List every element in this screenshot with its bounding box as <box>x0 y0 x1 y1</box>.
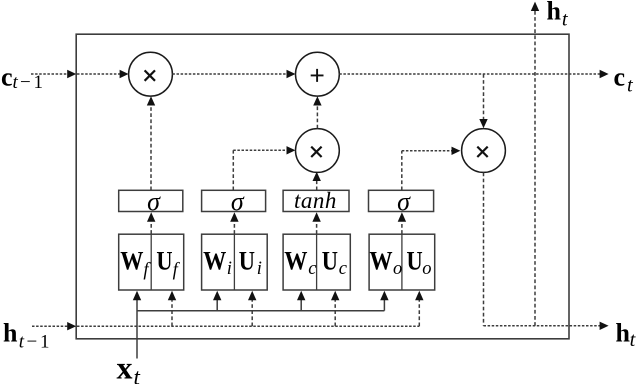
wire M1 to A1 dashed <box>172 73 287 75</box>
svg-text:i: i <box>257 259 262 279</box>
wire sigma-i route to M2 <box>232 150 234 190</box>
arrowhead x into Wi <box>213 291 221 301</box>
multiply node M3 (output gate) <box>462 129 506 173</box>
arrowhead into multiply node M1 <box>120 70 129 78</box>
wire A1 to c(t) output dashed <box>339 73 600 75</box>
arrowhead into cell left edge (h line) <box>67 322 76 330</box>
wire h(t) branch up to top <box>534 11 536 326</box>
wire h(t-1) input dashed <box>32 325 68 327</box>
svg-text:σ: σ <box>147 187 161 216</box>
gate box i (Wi|Ui) <box>202 234 268 290</box>
arrowhead c(t) output <box>600 70 609 78</box>
wire tanh up to M2 <box>316 181 318 190</box>
arrowhead into M1 bottom <box>147 96 155 105</box>
arrowhead into A1 bottom <box>313 96 321 105</box>
arrowhead into sigma i box <box>230 212 238 222</box>
arrowhead into M2 left <box>287 146 296 154</box>
cell boundary rectangle <box>76 34 569 339</box>
svg-text:U: U <box>322 246 338 276</box>
wire h(t-1) inside horizontal dashed <box>77 325 419 327</box>
tanh box <box>283 190 349 211</box>
svg-text:t: t <box>134 365 141 384</box>
svg-text:U: U <box>239 246 255 276</box>
wire sigma-f up to M1 <box>150 106 152 190</box>
sigma box f <box>119 190 183 211</box>
arrowhead h into Uf <box>168 291 176 301</box>
svg-text:W: W <box>284 246 308 276</box>
svg-text:σ: σ <box>231 187 245 216</box>
svg-text:U: U <box>156 246 172 276</box>
add node A1 <box>296 52 340 96</box>
arrowhead x into Wo <box>380 291 388 301</box>
wire x branch up to Wc <box>300 300 302 311</box>
wire gate c box up to tanh <box>316 222 318 234</box>
gate box f (Wf|Uf) <box>119 234 184 290</box>
wire h branch up to Uf <box>171 300 173 326</box>
arrowhead h(t) top <box>531 2 539 11</box>
arrowhead into M2 bottom <box>313 172 321 181</box>
wire M2 up to A1 <box>316 106 318 128</box>
wire M3 down then right to h(t) output <box>483 173 485 326</box>
arrowhead into sigma o box <box>398 212 406 222</box>
arrowhead into add node A1 <box>287 70 296 78</box>
wire gate i box up to sigma i <box>233 222 235 234</box>
svg-text:t−1: t−1 <box>13 72 44 93</box>
svg-text:h: h <box>547 0 562 26</box>
wire gate o box up to sigma o <box>401 222 403 234</box>
arrowhead h(t) output right <box>600 322 609 330</box>
multiply node M1 (forget gate) <box>129 52 173 96</box>
arrowhead h into Uo <box>415 291 423 301</box>
svg-text:tanh: tanh <box>294 188 337 213</box>
svg-text:o: o <box>422 259 431 279</box>
arrowhead into M3 left <box>452 147 461 155</box>
wire h branch up to Uc <box>334 300 336 326</box>
svg-text:U: U <box>407 246 423 276</box>
svg-text:W: W <box>203 246 227 276</box>
arrowhead h into Ui <box>248 291 256 301</box>
multiply node M2 (input gate) <box>296 129 340 173</box>
svg-text:o: o <box>393 259 402 279</box>
wire c(t-1) input dashed <box>31 73 68 75</box>
svg-text:h: h <box>616 319 631 348</box>
wire x(t) input solid vertical <box>136 300 138 359</box>
arrowhead h into Uc <box>331 291 339 301</box>
svg-text:c: c <box>308 259 317 279</box>
svg-text:W: W <box>120 246 144 276</box>
sigma box o <box>369 190 434 211</box>
wire h turn up to Uo <box>418 300 420 326</box>
svg-text:c: c <box>614 63 626 92</box>
sigma box i <box>202 190 266 211</box>
arrowhead x into Wc <box>297 291 305 301</box>
svg-text:σ: σ <box>397 187 411 216</box>
wire x branch up to Wi <box>216 300 218 311</box>
wire h branch up to Ui <box>251 300 253 326</box>
wire c branch down to M3 <box>483 74 485 120</box>
gate box o (Wo|Uo) <box>369 234 435 290</box>
svg-text:W: W <box>369 246 393 276</box>
arrowhead into sigma f box <box>147 212 155 222</box>
gate box c (Wc|Uc) <box>283 234 350 290</box>
wire sigma-o route to M3 <box>401 151 403 190</box>
svg-text:x: x <box>117 350 133 384</box>
arrowhead x into Wf <box>133 291 141 301</box>
svg-text:i: i <box>227 259 232 279</box>
arrowhead into cell left edge (c line) <box>67 70 76 78</box>
wire c line inside to multiply node <box>77 73 121 75</box>
arrowhead into M3 top <box>479 119 487 128</box>
svg-text:h: h <box>3 318 18 347</box>
svg-text:t−1: t−1 <box>19 331 50 352</box>
wire x distribution horizontal solid <box>137 310 384 312</box>
wire gate f box up to sigma f <box>150 222 152 234</box>
svg-text:c: c <box>1 63 13 92</box>
wire x branch up to Wo <box>383 300 385 311</box>
arrowhead into tanh box <box>312 212 320 222</box>
svg-text:c: c <box>339 259 348 279</box>
